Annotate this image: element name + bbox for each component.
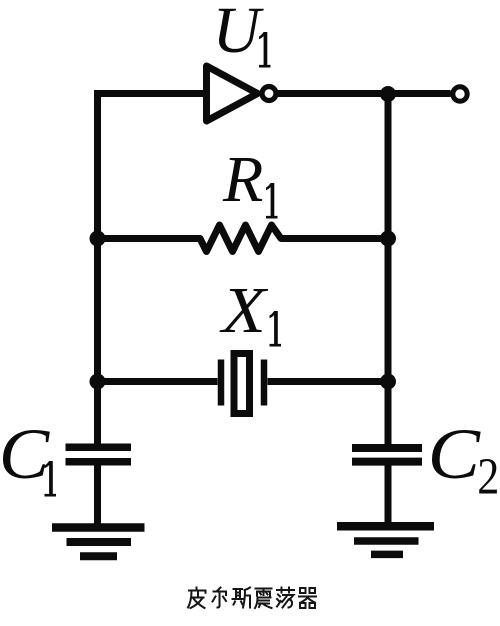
svg-text:2: 2 bbox=[477, 448, 499, 505]
svg-text:U: U bbox=[213, 0, 265, 67]
svg-text:C: C bbox=[0, 414, 50, 494]
svg-text:C: C bbox=[428, 415, 481, 494]
svg-text:X: X bbox=[219, 273, 269, 347]
svg-text:R: R bbox=[222, 143, 263, 216]
